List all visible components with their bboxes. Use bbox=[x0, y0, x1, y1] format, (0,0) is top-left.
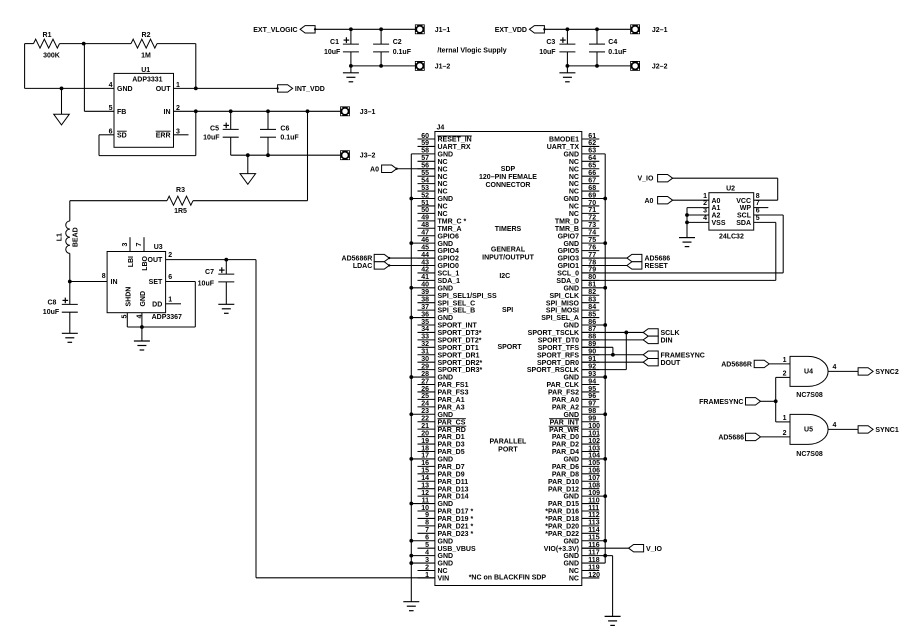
svg-text:FRAMESYNC: FRAMESYNC bbox=[699, 399, 743, 406]
svg-text:R3: R3 bbox=[176, 187, 185, 194]
flag SCLK bbox=[643, 329, 658, 336]
svg-text:*NC on BLACKFIN SDP: *NC on BLACKFIN SDP bbox=[469, 574, 547, 581]
J4 pin 68 NC bbox=[582, 190, 600, 192]
svg-text:PAR_D12: PAR_D12 bbox=[548, 486, 579, 493]
svg-text:72: 72 bbox=[588, 215, 596, 222]
node right bus GND pin 115 bbox=[603, 539, 607, 543]
ground bbox=[62, 332, 78, 334]
svg-text:PAR_A3: PAR_A3 bbox=[438, 404, 465, 411]
wire J4 left GND bus bbox=[410, 154, 412, 602]
svg-text:8: 8 bbox=[425, 520, 429, 527]
svg-text:NC: NC bbox=[569, 174, 579, 181]
J4 pin 20 PAR_D1 bbox=[418, 436, 435, 438]
J4 pin 32 SPORT_DT1 bbox=[418, 346, 435, 348]
wire GND net to U1 pin 4 bbox=[25, 87, 114, 89]
svg-text:INPUT/OUTPUT: INPUT/OUTPUT bbox=[482, 255, 534, 262]
svg-text:U3: U3 bbox=[154, 244, 163, 251]
svg-text:J1–2: J1–2 bbox=[435, 63, 451, 70]
svg-text:SPORT_DR1: SPORT_DR1 bbox=[438, 352, 480, 359]
J4 pin 64 NC bbox=[582, 160, 600, 162]
J4 pin 94 PAR_CLK bbox=[582, 384, 600, 386]
node C4 top junction bbox=[595, 27, 599, 31]
J4 pin 52 GND bbox=[411, 198, 435, 200]
svg-text:PORT: PORT bbox=[498, 446, 518, 453]
flag DOUT bbox=[643, 359, 658, 366]
svg-text:GPIO2: GPIO2 bbox=[438, 256, 460, 263]
svg-text:NC: NC bbox=[438, 166, 448, 173]
svg-text:NC: NC bbox=[569, 568, 579, 575]
svg-text:36: 36 bbox=[421, 311, 429, 318]
svg-text:NC: NC bbox=[438, 159, 448, 166]
J4 pin 116 VIO(+3.3V) bbox=[582, 547, 600, 549]
node left bus GND pin 17 bbox=[409, 457, 413, 461]
J4 pin 16 PAR_D7 bbox=[418, 465, 435, 467]
wire EXT_VLOGIC net bbox=[315, 28, 415, 30]
svg-text:93: 93 bbox=[588, 371, 596, 378]
wire SHDN stub bbox=[126, 313, 128, 327]
svg-text:70: 70 bbox=[588, 200, 596, 207]
J4 pin 107 PAR_D10 bbox=[582, 480, 600, 482]
wire J2 ground net bbox=[567, 65, 630, 67]
flag SYNC2 bbox=[858, 368, 873, 375]
svg-text:82: 82 bbox=[588, 289, 596, 296]
node C1 bottom junction bbox=[349, 64, 353, 68]
J4 pin 42 SCL_1 bbox=[418, 272, 435, 274]
svg-text:EXT_VLOGIC: EXT_VLOGIC bbox=[253, 27, 297, 34]
svg-text:14: 14 bbox=[421, 475, 429, 482]
J4 pin 75 GND bbox=[582, 242, 605, 244]
connector J1-1 bbox=[415, 24, 425, 34]
wire ground stub bbox=[247, 155, 249, 173]
J4 pin 114 *PAR_D22 bbox=[582, 532, 600, 534]
svg-text:PAR_D13: PAR_D13 bbox=[438, 486, 469, 493]
node TFS/RFS junction bbox=[611, 353, 615, 357]
resistor R2 bbox=[84, 43, 131, 45]
svg-text:SPORT_TFS: SPORT_TFS bbox=[538, 345, 580, 352]
svg-text:GND: GND bbox=[563, 494, 579, 501]
wire L1 to IN node bbox=[69, 253, 71, 281]
svg-text:85: 85 bbox=[588, 311, 596, 318]
node OUT/R2 junction bbox=[194, 87, 198, 91]
flag V_IO bbox=[629, 545, 644, 552]
svg-text:NC: NC bbox=[438, 189, 448, 196]
J4 pin 37 SPI_SEL_B bbox=[418, 309, 435, 311]
svg-text:17: 17 bbox=[421, 453, 429, 460]
J4 pin 21 PAR_RD bbox=[418, 428, 435, 430]
svg-text:PAR_D7: PAR_D7 bbox=[438, 464, 465, 471]
svg-text:NC: NC bbox=[569, 576, 579, 583]
wire FB to R1/R2 junction bbox=[84, 110, 114, 112]
svg-text:50: 50 bbox=[421, 207, 429, 214]
svg-text:PAR_FS3: PAR_FS3 bbox=[438, 390, 469, 397]
wire U4 pin 2 bbox=[776, 376, 790, 378]
wire SET loop bbox=[166, 281, 196, 283]
svg-text:SPORT_DR2*: SPORT_DR2* bbox=[438, 360, 483, 367]
node C2 bottom junction bbox=[379, 64, 383, 68]
capacitor C1 bbox=[350, 29, 352, 44]
svg-text:35: 35 bbox=[421, 319, 429, 326]
wire pin 90 to FRAMESYNC bbox=[582, 354, 643, 356]
connector J4 SDP body bbox=[435, 132, 582, 586]
svg-text:NC: NC bbox=[569, 181, 579, 188]
svg-text:J4: J4 bbox=[437, 125, 445, 132]
svg-text:GND: GND bbox=[438, 375, 454, 382]
and-gate U4 NC7S08 bbox=[790, 356, 828, 386]
svg-text:4: 4 bbox=[703, 215, 707, 222]
svg-text:IN: IN bbox=[111, 279, 118, 286]
svg-text:2: 2 bbox=[168, 252, 172, 259]
svg-text:1: 1 bbox=[783, 415, 787, 422]
svg-text:PAR_FS2: PAR_FS2 bbox=[548, 390, 579, 397]
capacitor C7 bbox=[225, 260, 227, 275]
svg-text:1: 1 bbox=[425, 572, 429, 579]
J4 pin 9 PAR_D19 * bbox=[418, 517, 435, 519]
node right bus GND pin 104 bbox=[603, 457, 607, 461]
wire DD stub bbox=[166, 303, 181, 305]
J4 pin 106 PAR_D8 bbox=[582, 473, 600, 475]
svg-text:10: 10 bbox=[421, 505, 429, 512]
flag RESET bbox=[627, 262, 642, 269]
svg-text:39: 39 bbox=[421, 289, 429, 296]
J4 pin 24 PAR_A3 bbox=[418, 406, 435, 408]
svg-text:46: 46 bbox=[421, 237, 429, 244]
svg-text:TMR_B: TMR_B bbox=[555, 226, 579, 233]
wire A1 stub bbox=[687, 207, 709, 209]
J4 pin 30 SPORT_DR2* bbox=[418, 361, 435, 363]
svg-text:25: 25 bbox=[421, 393, 429, 400]
svg-text:PAR_D10: PAR_D10 bbox=[548, 479, 579, 486]
svg-text:A2: A2 bbox=[712, 213, 721, 220]
svg-text:SCLK: SCLK bbox=[661, 330, 680, 337]
wire right bus to ground bbox=[605, 555, 612, 557]
J4 pin 118 GND bbox=[582, 562, 605, 564]
svg-text:INT_VDD: INT_VDD bbox=[295, 86, 325, 93]
svg-text:115: 115 bbox=[588, 535, 599, 542]
J4 pin 67 NC bbox=[582, 183, 600, 185]
svg-text:PAR_D6: PAR_D6 bbox=[552, 464, 579, 471]
svg-text:12: 12 bbox=[421, 490, 429, 497]
svg-text:19: 19 bbox=[421, 438, 429, 445]
svg-text:10uF: 10uF bbox=[539, 49, 556, 56]
J4 pin 31 SPORT_DR1 bbox=[418, 354, 435, 356]
svg-text:26: 26 bbox=[421, 386, 429, 393]
svg-text:GND: GND bbox=[438, 457, 454, 464]
svg-text:DOUT: DOUT bbox=[661, 360, 682, 367]
svg-text:1: 1 bbox=[168, 297, 172, 304]
svg-text:42: 42 bbox=[421, 267, 429, 274]
wire FRAMESYNC tie bbox=[761, 400, 776, 402]
svg-text:GND: GND bbox=[438, 538, 454, 545]
svg-text:GPIO4: GPIO4 bbox=[438, 248, 460, 255]
svg-text:SPORT_DR3*: SPORT_DR3* bbox=[438, 367, 483, 374]
svg-text:6: 6 bbox=[168, 274, 172, 281]
svg-text:PAR_INT: PAR_INT bbox=[550, 419, 580, 426]
svg-text:37: 37 bbox=[421, 304, 429, 311]
svg-text:A0: A0 bbox=[644, 198, 653, 205]
svg-text:51: 51 bbox=[421, 200, 429, 207]
svg-text:U1: U1 bbox=[141, 67, 150, 74]
svg-text:30: 30 bbox=[421, 356, 429, 363]
svg-text:L1: L1 bbox=[57, 233, 64, 241]
svg-text:2: 2 bbox=[703, 200, 707, 207]
svg-text:PAR_D3: PAR_D3 bbox=[438, 442, 465, 449]
wire WP stub bbox=[754, 207, 769, 209]
svg-text:GND: GND bbox=[438, 561, 454, 568]
svg-text:RESET: RESET bbox=[645, 263, 669, 270]
svg-text:94: 94 bbox=[588, 378, 596, 385]
capacitor C5 bbox=[230, 111, 232, 129]
svg-text:95: 95 bbox=[588, 386, 596, 393]
J4 pin 85 SPI_SEL_A bbox=[582, 317, 600, 319]
svg-text:SPORT_TSCLK: SPORT_TSCLK bbox=[528, 330, 579, 337]
svg-text:SPORT: SPORT bbox=[497, 344, 522, 351]
svg-text:UART_RX: UART_RX bbox=[438, 144, 471, 151]
J4 pin 95 PAR_FS2 bbox=[582, 391, 600, 393]
svg-text:SPI_SEL_A: SPI_SEL_A bbox=[541, 315, 579, 322]
svg-text:10uF: 10uF bbox=[324, 49, 341, 56]
svg-text:GND: GND bbox=[438, 285, 454, 292]
svg-text:PAR_D8: PAR_D8 bbox=[552, 471, 579, 478]
svg-text:C1: C1 bbox=[330, 39, 339, 46]
svg-text:84: 84 bbox=[588, 304, 596, 311]
J4 pin 45 GPIO4 bbox=[418, 250, 435, 252]
wire ground stub bbox=[566, 66, 568, 73]
svg-text:NC: NC bbox=[438, 181, 448, 188]
svg-text:VIO(+3.3V): VIO(+3.3V) bbox=[544, 546, 579, 553]
svg-text:PAR_D19 *: PAR_D19 * bbox=[438, 516, 474, 523]
svg-text:16: 16 bbox=[421, 460, 429, 467]
svg-text:81: 81 bbox=[588, 282, 596, 289]
J4 pin 15 PAR_D9 bbox=[418, 473, 435, 475]
node OUT/C7 junction bbox=[224, 258, 228, 262]
svg-text:10uF: 10uF bbox=[43, 309, 60, 316]
svg-text:GPIO1: GPIO1 bbox=[558, 263, 580, 270]
J4 pin 23 GND bbox=[411, 413, 435, 415]
svg-text:106: 106 bbox=[588, 468, 600, 475]
J4 pin 83 SPI_MISO bbox=[582, 302, 600, 304]
svg-text:102: 102 bbox=[588, 438, 600, 445]
svg-text:J3–2: J3–2 bbox=[360, 153, 376, 160]
svg-text:PAR_D4: PAR_D4 bbox=[552, 449, 579, 456]
svg-text:86: 86 bbox=[588, 319, 596, 326]
J4 pin 38 SPI_SEL_C bbox=[418, 302, 435, 304]
svg-text:105: 105 bbox=[588, 460, 600, 467]
wire U5 output pin 4 bbox=[828, 428, 858, 430]
svg-text:300K: 300K bbox=[43, 52, 60, 59]
wire ERR stub bbox=[174, 134, 189, 136]
svg-text:55: 55 bbox=[421, 170, 429, 177]
J4 pin 40 GND bbox=[411, 287, 435, 289]
svg-text:PAR_D0: PAR_D0 bbox=[552, 434, 579, 441]
svg-text:32: 32 bbox=[421, 341, 429, 348]
J4 pin 82 SPI_CLK bbox=[582, 294, 600, 296]
J4 pin 112 *PAR_D18 bbox=[582, 517, 600, 519]
svg-text:PAR_A2: PAR_A2 bbox=[552, 404, 579, 411]
svg-text:R1: R1 bbox=[43, 32, 52, 39]
wire OUT net bbox=[174, 87, 278, 89]
svg-text:PAR_CS: PAR_CS bbox=[438, 419, 466, 426]
svg-text:SDP: SDP bbox=[501, 166, 516, 173]
svg-text:C3: C3 bbox=[546, 39, 555, 46]
svg-text:98: 98 bbox=[588, 408, 596, 415]
svg-text:SYNC1: SYNC1 bbox=[875, 427, 898, 434]
wire R2 to OUT bbox=[195, 44, 197, 89]
svg-text:58: 58 bbox=[421, 148, 429, 155]
svg-text:0.1uF: 0.1uF bbox=[393, 49, 412, 56]
J4 pin 90 SPORT_RFS bbox=[582, 354, 600, 356]
wire C5/C6 ground net bbox=[231, 154, 341, 156]
svg-text:15: 15 bbox=[421, 468, 429, 475]
svg-text:NC7S08: NC7S08 bbox=[796, 392, 823, 399]
svg-text:SD: SD bbox=[117, 132, 127, 139]
svg-text:3: 3 bbox=[703, 208, 707, 215]
node right bus GND pin 93 bbox=[603, 375, 607, 379]
J4 pin 91 SPORT_DR0 bbox=[582, 361, 600, 363]
J4 pin 6 GND bbox=[411, 540, 435, 542]
svg-text:59: 59 bbox=[421, 140, 429, 147]
svg-text:OUT: OUT bbox=[148, 257, 164, 264]
J4 pin 51 NC bbox=[418, 205, 435, 207]
svg-text:AD5686: AD5686 bbox=[718, 434, 744, 441]
svg-text:C7: C7 bbox=[205, 269, 214, 276]
svg-text:8: 8 bbox=[102, 273, 106, 280]
svg-text:NC: NC bbox=[438, 204, 448, 211]
node right bus GND pin 81 bbox=[603, 286, 607, 290]
svg-text:LBI: LBI bbox=[128, 256, 135, 267]
svg-text:*PAR_D22: *PAR_D22 bbox=[545, 531, 579, 538]
svg-text:2: 2 bbox=[783, 430, 787, 437]
svg-text:68: 68 bbox=[588, 185, 596, 192]
node C3 top junction bbox=[566, 27, 570, 31]
node FRAMESYNC junction bbox=[774, 399, 778, 403]
J4 pin 29 SPORT_DR3* bbox=[418, 369, 435, 371]
J4 pin 92 SPORT_RSCLK bbox=[582, 369, 600, 371]
wire J1 ground net bbox=[351, 65, 415, 67]
J4 pin 43 GPIO0 bbox=[418, 264, 435, 266]
wire U3 OUT net bbox=[166, 259, 256, 261]
svg-text:112: 112 bbox=[588, 512, 599, 519]
svg-text:27: 27 bbox=[421, 378, 429, 385]
svg-text:PAR_D9: PAR_D9 bbox=[438, 471, 465, 478]
svg-text:NC: NC bbox=[438, 211, 448, 218]
svg-text:GND: GND bbox=[438, 412, 454, 419]
node C3 bottom junction bbox=[566, 64, 570, 68]
svg-text:40: 40 bbox=[421, 282, 429, 289]
svg-text:PAR_D1: PAR_D1 bbox=[438, 434, 465, 441]
J4 pin 49 TMR_C * bbox=[418, 220, 435, 222]
svg-text:GND: GND bbox=[438, 196, 454, 203]
svg-text:NC: NC bbox=[569, 204, 579, 211]
svg-text:SYNC2: SYNC2 bbox=[875, 369, 898, 376]
svg-text:AD5686R: AD5686R bbox=[721, 361, 752, 368]
node left bus GND pin 36 bbox=[409, 316, 413, 320]
svg-text:V_IO: V_IO bbox=[646, 546, 663, 553]
svg-text:20: 20 bbox=[421, 430, 429, 437]
capacitor C6 bbox=[267, 111, 269, 129]
svg-text:83: 83 bbox=[588, 296, 596, 303]
svg-text:1R5: 1R5 bbox=[174, 208, 187, 215]
wire R1 left leg bbox=[25, 43, 34, 45]
J4 pin 13 PAR_D13 bbox=[418, 488, 435, 490]
svg-text:PAR_D2: PAR_D2 bbox=[552, 442, 579, 449]
J4 pin 77 GPIO3 bbox=[582, 257, 600, 259]
J4 pin 63 GND bbox=[582, 153, 605, 155]
svg-text:2: 2 bbox=[783, 370, 787, 377]
J4 pin 73 TMR_B bbox=[582, 227, 600, 229]
J4 pin 110 PAR_D15 bbox=[582, 503, 600, 505]
svg-text:FRAMESYNC: FRAMESYNC bbox=[661, 352, 705, 359]
svg-text:117: 117 bbox=[588, 549, 599, 556]
J4 pin 93 GND bbox=[582, 376, 605, 378]
svg-text:62: 62 bbox=[588, 140, 596, 147]
svg-text:69: 69 bbox=[588, 192, 596, 199]
svg-text:J3–1: J3–1 bbox=[360, 109, 376, 116]
svg-text:99: 99 bbox=[588, 416, 596, 423]
node IN/R3 junction bbox=[306, 109, 310, 113]
svg-text:GND: GND bbox=[563, 561, 579, 568]
J4 pin 33 SPORT_DT2* bbox=[418, 339, 435, 341]
svg-text:ADP3367: ADP3367 bbox=[152, 314, 182, 321]
svg-text:GENERAL: GENERAL bbox=[491, 247, 526, 254]
svg-text:TMR_D: TMR_D bbox=[555, 218, 579, 225]
svg-text:SPORT_DT0: SPORT_DT0 bbox=[538, 337, 579, 344]
svg-text:6: 6 bbox=[756, 208, 760, 215]
svg-text:104: 104 bbox=[588, 453, 600, 460]
J4 pin 47 GPIO6 bbox=[418, 235, 435, 237]
node left bus GND pin 52 bbox=[409, 197, 413, 201]
J4 pin 39 SPI_SEL1/SPI_SS bbox=[418, 294, 435, 296]
svg-text:GND: GND bbox=[563, 538, 579, 545]
wire SCL to SCL_0 bbox=[754, 214, 784, 216]
svg-text:PAR_WR: PAR_WR bbox=[549, 427, 579, 434]
svg-text:6: 6 bbox=[425, 535, 429, 542]
svg-text:9: 9 bbox=[425, 512, 429, 519]
svg-text:103: 103 bbox=[588, 445, 600, 452]
wire pin 88 to DIN bbox=[582, 339, 643, 341]
J4 pin 76 GPIO5 bbox=[582, 250, 600, 252]
wire ground stub bbox=[61, 88, 63, 114]
flag AD5686 bbox=[627, 254, 642, 261]
svg-text:U5: U5 bbox=[804, 426, 813, 433]
node right bus GND pin 117 bbox=[603, 554, 607, 558]
svg-text:GND: GND bbox=[438, 553, 454, 560]
wire pin 116 to V_IO bbox=[582, 547, 629, 549]
wire GND stub bbox=[141, 313, 143, 327]
svg-text:101: 101 bbox=[588, 430, 600, 437]
svg-text:BEAD: BEAD bbox=[73, 227, 80, 247]
capacitor C4 bbox=[596, 29, 598, 44]
wire IN to R3 bbox=[307, 111, 309, 200]
J4 pin 103 PAR_D4 bbox=[582, 450, 600, 452]
J4 pin 34 SPORT_DT3* bbox=[418, 331, 435, 333]
svg-text:107: 107 bbox=[588, 475, 600, 482]
J4 pin 50 NC bbox=[418, 212, 435, 214]
svg-text:SDA_0: SDA_0 bbox=[556, 278, 579, 285]
ground bbox=[605, 615, 621, 617]
svg-text:SCL: SCL bbox=[737, 213, 752, 220]
svg-text:TIMERS: TIMERS bbox=[495, 226, 522, 233]
svg-text:GND: GND bbox=[563, 323, 579, 330]
wire A2 stub bbox=[687, 214, 709, 216]
J4 pin 99 PAR_INT bbox=[582, 421, 600, 423]
wire U4 output pin 4 bbox=[828, 370, 858, 372]
J4 pin 22 PAR_CS bbox=[418, 421, 435, 423]
svg-text:SPI_SEL1/SPI_SS: SPI_SEL1/SPI_SS bbox=[438, 293, 497, 300]
J4 pin 59 UART_RX bbox=[418, 145, 435, 147]
svg-text:AD5686: AD5686 bbox=[645, 256, 671, 263]
svg-text:SPORT_RFS: SPORT_RFS bbox=[537, 352, 579, 359]
node right bus GND pin 98 bbox=[603, 412, 607, 416]
